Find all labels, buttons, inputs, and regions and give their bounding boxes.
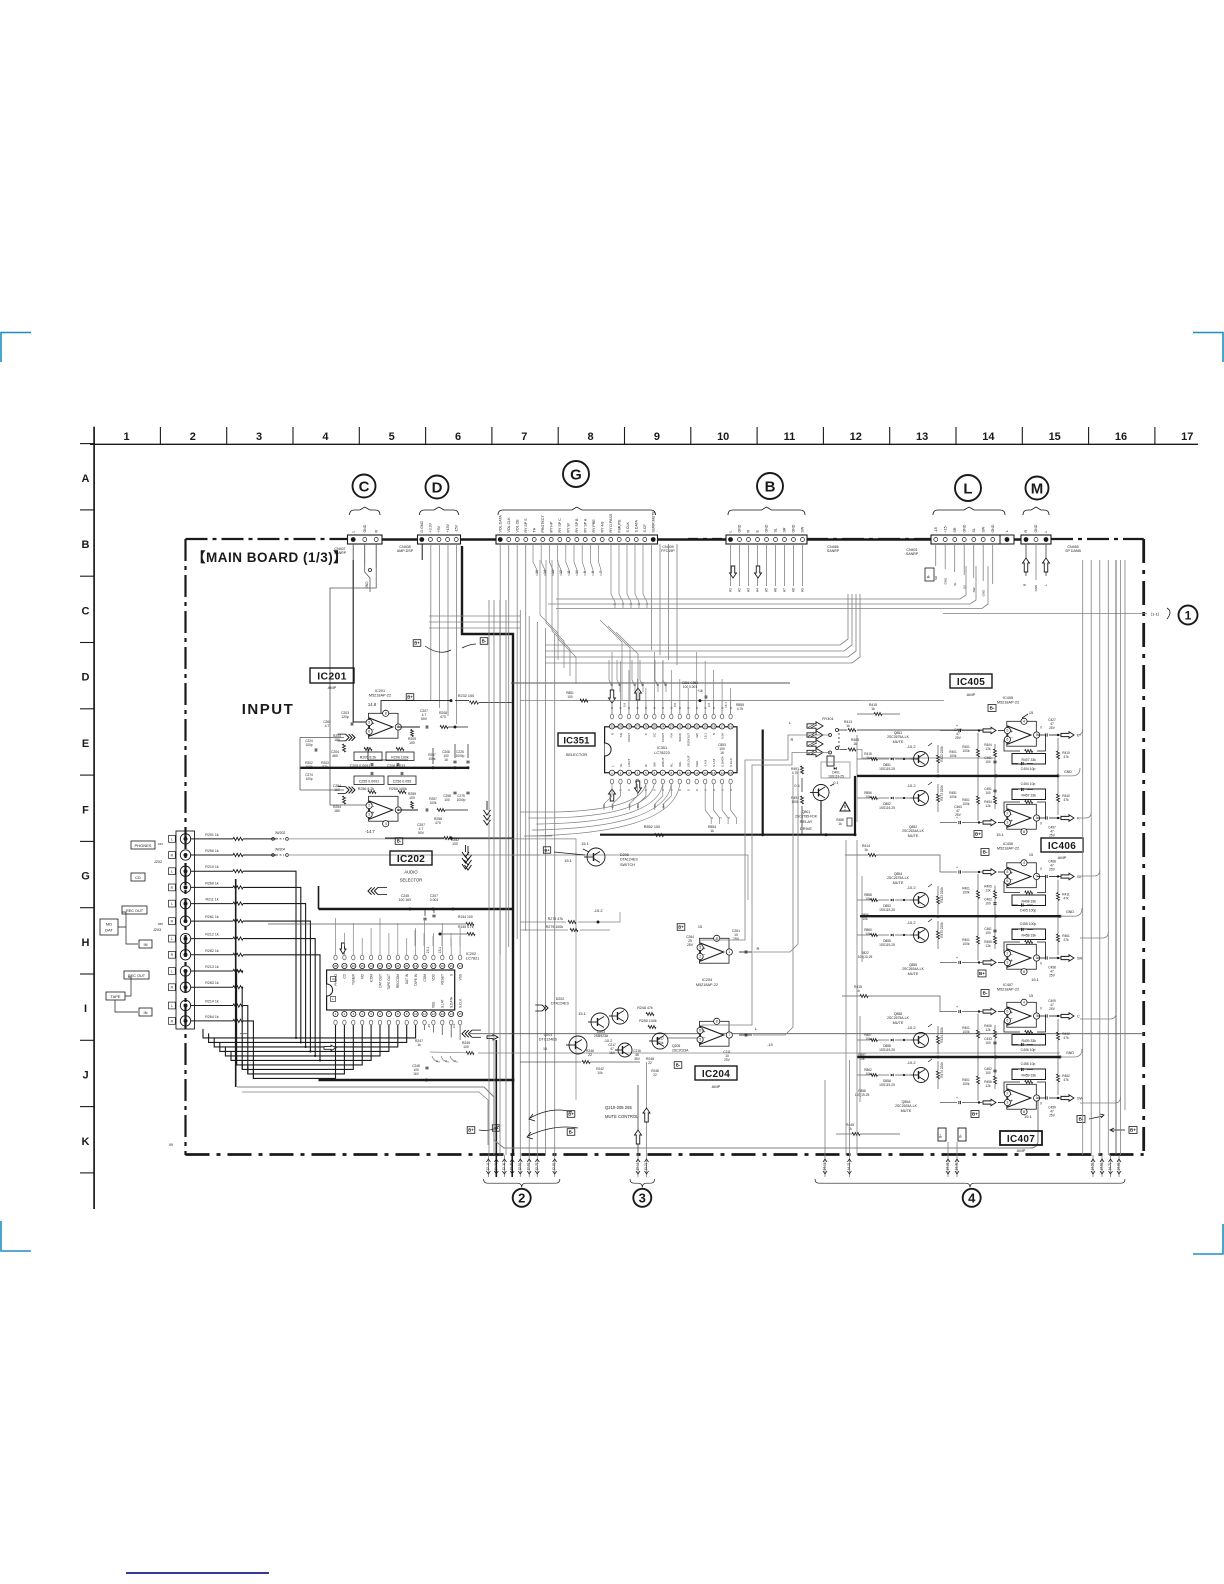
svg-text:C455 100p: C455 100p <box>1020 922 1037 926</box>
transistor Q202 <box>588 1013 609 1031</box>
svg-text:-15: -15 <box>934 527 938 532</box>
svg-text:B-: B- <box>959 1134 963 1137</box>
IC202 pin 16 top <box>440 963 445 968</box>
grid tick <box>80 708 94 710</box>
svg-text:VSS: VSS <box>458 974 462 980</box>
IC351 pin 5 bottom <box>643 770 648 775</box>
capacitor C206 <box>397 763 399 766</box>
svg-text:SR: SR <box>953 527 957 532</box>
IC351 pin 16 top <box>728 724 733 729</box>
svg-text:R256 8.2k: R256 8.2k <box>358 787 375 791</box>
left rounded wire loops right section <box>856 735 858 822</box>
svg-text:C404 10p: C404 10p <box>1021 767 1036 771</box>
op-amp U1B (IC201 b) <box>366 796 401 827</box>
svg-text:B3: B3 <box>641 682 645 686</box>
svg-text:100k: 100k <box>429 757 436 761</box>
input arrow <box>983 1099 996 1106</box>
heavy GND bus 3 <box>857 1056 1060 1058</box>
svg-text:SR: SR <box>783 527 787 532</box>
svg-text:21: 21 <box>396 964 400 968</box>
resistor R491 <box>801 766 804 774</box>
svg-text:100: 100 <box>985 1071 991 1075</box>
svg-text:25V: 25V <box>1049 868 1056 872</box>
svg-text:27: 27 <box>636 725 640 729</box>
wire jack 3 via stair to IC202 <box>243 871 296 1038</box>
svg-text:1SS119-25: 1SS119-25 <box>879 943 895 947</box>
svg-text:15.1: 15.1 <box>438 947 442 954</box>
off-page stub 2-1 <box>486 1155 491 1177</box>
svg-text:⟨4-4⟩: ⟨4-4⟩ <box>955 1163 959 1171</box>
svg-text:VOL.CE: VOL.CE <box>516 519 520 533</box>
svg-text:R423 220k: R423 220k <box>940 887 944 903</box>
svg-text:C405 100p: C405 100p <box>1020 909 1037 913</box>
svg-text:30: 30 <box>610 725 614 729</box>
vertical bus wire <box>1082 560 1084 1155</box>
grid tick <box>889 427 891 444</box>
grid tick <box>80 1106 94 1108</box>
svg-text:GND: GND <box>363 524 367 532</box>
svg-text:VDD: VDD <box>432 973 436 980</box>
svg-text:R422 220k: R422 220k <box>940 746 944 762</box>
svg-text:1k: 1k <box>853 742 857 746</box>
svg-text:RY SP S: RY SP S <box>524 518 528 533</box>
grid tick <box>1021 427 1023 444</box>
svg-text:16: 16 <box>720 751 724 755</box>
svg-text:GND: GND <box>1066 910 1074 914</box>
svg-text:8: 8 <box>1023 970 1025 974</box>
up arrow g3 b <box>643 1108 650 1122</box>
transistor Q852 mute <box>857 782 944 812</box>
IC201 label <box>310 668 354 683</box>
svg-text:R: R <box>1024 530 1028 533</box>
vertical bus wire <box>1090 560 1092 1155</box>
svg-text:2SC2675A-LK: 2SC2675A-LK <box>887 1016 909 1020</box>
jog wire <box>616 632 638 700</box>
IC202 top riser <box>432 933 434 946</box>
svg-text:10k: 10k <box>865 897 871 901</box>
wire bundle from C connector <box>352 544 354 560</box>
relay RY401 <box>807 722 823 757</box>
label B+ IC406 <box>978 970 986 977</box>
svg-text:100p: 100p <box>305 743 312 747</box>
svg-text:47k: 47k <box>1063 938 1069 942</box>
svg-text:16: 16 <box>1115 431 1127 443</box>
up arrow below IC351 <box>609 789 616 801</box>
svg-text:MUTE: MUTE <box>893 740 904 744</box>
svg-text:WOUT: WOUT <box>661 757 665 767</box>
wires below M connector <box>1025 544 1027 576</box>
chevron feed R <box>338 787 355 794</box>
IC202 top riser <box>388 933 390 946</box>
chevron arrow down <box>484 810 491 825</box>
svg-text:0: 0 <box>1040 962 1042 966</box>
IC202 top riser <box>352 923 354 946</box>
svg-text:3: 3 <box>1006 1101 1008 1105</box>
svg-text:R261 1k: R261 1k <box>205 915 219 919</box>
svg-text:GND: GND <box>1064 770 1072 774</box>
svg-text:7: 7 <box>728 1033 730 1037</box>
svg-text:L: L <box>171 1004 173 1008</box>
grid tick <box>1154 427 1156 444</box>
IC202 top riser <box>406 938 408 946</box>
input jack pin 11 <box>180 1000 190 1010</box>
svg-text:B+: B+ <box>678 925 684 930</box>
off-page stub 4-1 <box>823 1155 828 1177</box>
svg-text:100k: 100k <box>657 1041 664 1045</box>
IC351 pin 17 top <box>720 724 725 729</box>
svg-text:15: 15 <box>698 925 702 929</box>
svg-text:13: 13 <box>916 431 928 443</box>
label IN 2 <box>139 1008 152 1016</box>
svg-text:DAT OUT: DAT OUT <box>378 974 382 988</box>
svg-text:SL: SL <box>619 763 623 767</box>
label B+ small <box>492 1125 499 1131</box>
svg-text:SR: SR <box>1077 957 1083 961</box>
IC351 pin 12 bottom <box>703 770 708 775</box>
svg-text:28: 28 <box>627 725 631 729</box>
svg-text:25V: 25V <box>1049 726 1056 730</box>
svg-text:20: 20 <box>405 964 409 968</box>
op-amp IC204b <box>697 1018 732 1046</box>
svg-text:2SB923A: 2SB923A <box>594 1034 609 1038</box>
svg-text:24: 24 <box>661 725 665 729</box>
svg-text:VS6: VS6 <box>720 733 724 739</box>
svg-text:+3.3V: +3.3V <box>429 522 433 532</box>
svg-text:1k: 1k <box>417 1043 421 1047</box>
IC351 pin 19 top <box>703 724 708 729</box>
svg-text:1k: 1k <box>864 848 868 852</box>
svg-text:⟨4-6⟩: ⟨4-6⟩ <box>1100 1163 1104 1171</box>
svg-text:RY SP C: RY SP C <box>558 518 562 533</box>
horizontal nets mid (to B region) <box>545 594 848 645</box>
svg-text:09: 09 <box>169 1143 173 1147</box>
svg-text:LOUT: LOUT <box>627 759 631 767</box>
svg-text:12k: 12k <box>985 1028 991 1032</box>
svg-text:10: 10 <box>414 1012 418 1016</box>
svg-text:D.GND: D.GND <box>420 521 424 533</box>
svg-text:470: 470 <box>440 715 446 719</box>
diode D851 <box>891 758 894 761</box>
input arrow <box>983 819 996 826</box>
transistor Q85A mute <box>857 1059 944 1089</box>
grid tick <box>80 774 94 776</box>
output capacitor <box>1046 1096 1048 1099</box>
svg-text:TAPE: TAPE <box>110 994 120 999</box>
svg-text:47k: 47k <box>1063 755 1069 759</box>
wire jack 9 via stair to IC202 <box>237 971 243 1065</box>
IC202 pin 10 bottom <box>413 1011 418 1016</box>
vertical bus wire <box>1124 560 1126 1110</box>
wire G VOL <box>499 544 501 955</box>
IC351 pin 21 top <box>686 724 691 729</box>
grid tick <box>491 427 493 444</box>
svg-text:GND: GND <box>1066 1051 1074 1055</box>
capacitor C207 <box>426 725 428 728</box>
resistor R204 <box>343 744 346 752</box>
svg-text:B-: B- <box>990 706 995 711</box>
svg-text:IC406: IC406 <box>1048 841 1076 852</box>
IC202 top riser <box>441 923 443 946</box>
svg-text:15.1: 15.1 <box>996 832 1005 837</box>
svg-text:⟨3-1⟩: ⟨3-1⟩ <box>636 1163 640 1171</box>
IC202 pin 15 top <box>449 963 454 968</box>
IC351 pin 20 top <box>694 724 699 729</box>
svg-text:+5V: +5V <box>437 525 441 532</box>
transistor Q203 <box>615 1043 632 1057</box>
svg-text:DAT: DAT <box>105 928 113 933</box>
svg-text:12k: 12k <box>985 1084 991 1088</box>
wire loop <box>237 1087 1030 1148</box>
wires below B connector <box>730 544 732 586</box>
resistor R852 <box>655 833 664 836</box>
vertical wire <box>499 600 501 1155</box>
off-page stub 2-7 <box>535 1155 540 1177</box>
svg-text:⟨2-8⟩: ⟨2-8⟩ <box>552 1163 556 1171</box>
capacitor C203 <box>351 722 353 725</box>
svg-text:1SS119-25: 1SS119-25 <box>879 1083 895 1087</box>
output arrow <box>1061 955 1074 962</box>
IC202 pin 23 top <box>377 963 382 968</box>
label B- <box>480 638 488 645</box>
resistor R246 <box>582 1061 590 1064</box>
svg-text:100 16V: 100 16V <box>399 898 412 902</box>
input jack pin 9 <box>180 966 190 976</box>
svg-text:C454 10p: C454 10p <box>1021 782 1036 786</box>
svg-text:26: 26 <box>644 725 648 729</box>
svg-text:12: 12 <box>850 431 862 443</box>
svg-text:JW202: JW202 <box>275 831 286 835</box>
svg-text:4.7k: 4.7k <box>737 707 744 711</box>
grid tick <box>358 427 360 444</box>
svg-text:A6: A6 <box>774 588 778 592</box>
svg-text:RY 4/8: RY 4/8 <box>601 522 605 533</box>
svg-text:25: 25 <box>361 964 365 968</box>
svg-text:IC201: IC201 <box>317 671 347 683</box>
brace group 4 <box>815 1179 1125 1187</box>
wire jack 7 via stair to IC202 <box>243 939 315 1056</box>
cap input divider <box>993 761 996 763</box>
svg-text:4: 4 <box>322 431 329 443</box>
transistor Q858 mute <box>857 1024 944 1054</box>
svg-text:17: 17 <box>721 725 725 729</box>
svg-text:R474 220k: R474 220k <box>940 1062 944 1078</box>
svg-text:11: 11 <box>567 570 571 574</box>
long net right <box>470 1033 1144 1035</box>
svg-text:14: 14 <box>982 431 995 443</box>
output capacitor <box>1046 816 1048 819</box>
vertical bus wire <box>1115 560 1117 1155</box>
small vertical B boxes <box>938 1128 946 1141</box>
heavy vertical x855 <box>854 776 856 835</box>
svg-text:D: D <box>432 479 443 496</box>
connector CN401 (L) <box>931 524 1007 544</box>
horizontal wire <box>429 627 520 629</box>
svg-text:D: D <box>82 672 90 684</box>
svg-text:B-: B- <box>676 1063 681 1068</box>
svg-text:15.1: 15.1 <box>724 702 728 708</box>
svg-text:15.1: 15.1 <box>704 733 708 739</box>
svg-text:22: 22 <box>678 725 682 729</box>
svg-text:DAT IN: DAT IN <box>405 973 409 984</box>
svg-text:B-: B- <box>482 639 487 644</box>
op-amp IC406a <box>1004 860 1039 888</box>
svg-text:10k: 10k <box>865 932 871 936</box>
svg-text:B-: B- <box>569 1130 574 1135</box>
svg-text:-15V: -15V <box>454 524 458 532</box>
svg-text:10: 10 <box>575 570 579 574</box>
wire G VOL <box>516 544 518 939</box>
vertical wire x846 <box>845 840 847 1155</box>
svg-text:-10.2: -10.2 <box>906 1025 916 1030</box>
off-page stub 4-8 <box>1117 1155 1122 1177</box>
svg-text:100: 100 <box>444 798 450 802</box>
svg-text:A1: A1 <box>729 588 733 592</box>
svg-text:R: R <box>791 737 794 742</box>
horizontal wire <box>429 615 520 617</box>
svg-text:2SC2675A-LK: 2SC2675A-LK <box>887 876 909 880</box>
svg-text:12k: 12k <box>985 747 991 751</box>
svg-text:25: 25 <box>653 725 657 729</box>
svg-text:14: 14 <box>450 1012 454 1016</box>
op-amp IC405a <box>1004 718 1039 746</box>
svg-text:AUDIO: AUDIO <box>404 870 418 875</box>
IC351 pin 29 top <box>618 724 623 729</box>
IC202 pin 13 bottom <box>440 1011 445 1016</box>
svg-text:R407 33k: R407 33k <box>1021 758 1036 762</box>
svg-text:5: 5 <box>1006 1010 1008 1014</box>
svg-text:C256 0.055: C256 0.055 <box>393 779 412 783</box>
svg-text:AMP-DSP: AMP-DSP <box>397 549 414 553</box>
svg-text:100: 100 <box>567 695 573 699</box>
svg-text:6: 6 <box>699 1029 701 1033</box>
resistor load <box>1057 751 1060 759</box>
svg-text:100k: 100k <box>950 754 957 758</box>
transistor Q854 mute <box>857 884 944 914</box>
crop mark bottom-left <box>1 1221 31 1251</box>
IC202 pin 1 bottom <box>333 1011 338 1016</box>
wires above IC351 region <box>560 700 598 702</box>
wire jack 6 via stair to IC202 <box>243 921 310 1051</box>
svg-text:15: 15 <box>1029 711 1033 715</box>
input jack strip J203/J205 <box>176 831 195 1029</box>
svg-text:J203: J203 <box>153 928 161 932</box>
svg-text:⟨4-2⟩: ⟨4-2⟩ <box>847 1163 851 1171</box>
svg-text:15.1: 15.1 <box>578 1011 587 1016</box>
svg-text:B+: B+ <box>568 1112 574 1117</box>
svg-text:AMP: AMP <box>712 1084 721 1089</box>
capacitor C258 <box>453 792 456 794</box>
svg-text:100 0.001: 100 0.001 <box>683 685 697 689</box>
IC202 pin 7 bottom <box>386 1011 391 1016</box>
grid tick <box>624 427 626 444</box>
IC202 pin 21 top <box>395 963 400 968</box>
connector CN466 (B) <box>726 524 807 544</box>
svg-text:4: 4 <box>1023 861 1025 865</box>
svg-text:G: G <box>81 871 90 883</box>
svg-text:0: 0 <box>1040 867 1042 871</box>
IC351 bottom fan <box>604 784 612 810</box>
svg-text:0.6: 0.6 <box>794 784 799 788</box>
center bundle wire <box>554 634 556 1155</box>
svg-text:16: 16 <box>444 758 448 762</box>
svg-text:CD: CD <box>135 875 141 880</box>
heavy GND bus 2 <box>860 915 1060 917</box>
svg-text:R: R <box>757 946 760 951</box>
svg-text:7: 7 <box>599 571 603 573</box>
svg-text:GND: GND <box>792 524 796 532</box>
IC351 right pins down <box>705 784 711 824</box>
svg-text:28: 28 <box>334 964 338 968</box>
board border bottom <box>186 1153 1144 1156</box>
transistor Q201 <box>566 1036 587 1054</box>
wires below L connector <box>935 544 937 566</box>
svg-text:M5218AP-22: M5218AP-22 <box>696 983 718 987</box>
up arrow IC351 <box>635 688 642 700</box>
svg-text:B-: B- <box>397 839 402 844</box>
center bundle wire <box>519 610 521 1155</box>
svg-text:MUTE: MUTE <box>893 1021 904 1025</box>
svg-text:L: L <box>171 902 173 906</box>
svg-text:RY PRE: RY PRE <box>592 519 596 533</box>
svg-text:MUTE: MUTE <box>901 1109 912 1113</box>
svg-text:A4: A4 <box>633 682 637 686</box>
vertical wire x857 <box>856 840 858 1155</box>
transistor Q801 <box>810 785 829 801</box>
svg-text:B6: B6 <box>636 804 640 808</box>
svg-text:S.DATA: S.DATA <box>635 519 639 532</box>
svg-text:-15: -15 <box>427 1024 431 1029</box>
svg-text:⟨2-6⟩: ⟨2-6⟩ <box>527 1163 531 1171</box>
label B- IC201 <box>395 838 403 845</box>
svg-text:11: 11 <box>423 1012 426 1016</box>
input jack pin 4 <box>180 882 190 892</box>
IC202 pin 24 top <box>369 963 374 968</box>
diode D401 <box>821 762 850 778</box>
svg-text:6: 6 <box>1006 1019 1008 1023</box>
svg-text:SW: SW <box>801 526 805 532</box>
grid ruler top line <box>90 443 1198 445</box>
brace group 2 <box>484 1179 560 1187</box>
IC351 pin 25 top <box>652 724 657 729</box>
wire D rail <box>456 544 458 724</box>
svg-text:RY SP B: RY SP B <box>575 518 579 533</box>
svg-text:A7: A7 <box>656 682 660 686</box>
input arrow <box>983 1008 996 1015</box>
long horizontal nets from L connector <box>556 566 966 599</box>
svg-text:GND: GND <box>943 577 947 585</box>
grid tick <box>159 427 161 444</box>
svg-text:0.6: 0.6 <box>707 703 711 708</box>
svg-text:100k: 100k <box>950 795 957 799</box>
svg-text:H: H <box>82 937 90 949</box>
svg-text:2: 2 <box>1006 812 1008 816</box>
svg-text:⟨3-2⟩: ⟨3-2⟩ <box>644 1163 648 1171</box>
output capacitor <box>1046 875 1048 878</box>
svg-text:21: 21 <box>687 725 691 729</box>
svg-text:ROUT: ROUT <box>627 733 631 742</box>
svg-text:25V: 25V <box>1049 1007 1056 1011</box>
svg-text:6: 6 <box>455 431 461 443</box>
svg-text:25V: 25V <box>687 943 694 947</box>
svg-text:47k: 47k <box>1063 897 1069 901</box>
svg-text:-14.8: -14.8 <box>704 760 708 767</box>
svg-text:25V: 25V <box>1049 834 1056 838</box>
svg-text:B-: B- <box>927 575 931 578</box>
svg-text:15.1: 15.1 <box>581 841 590 846</box>
svg-text:RH: RH <box>670 733 674 737</box>
vertical wire <box>488 600 490 1155</box>
svg-text:RECCOM: RECCOM <box>396 974 400 989</box>
